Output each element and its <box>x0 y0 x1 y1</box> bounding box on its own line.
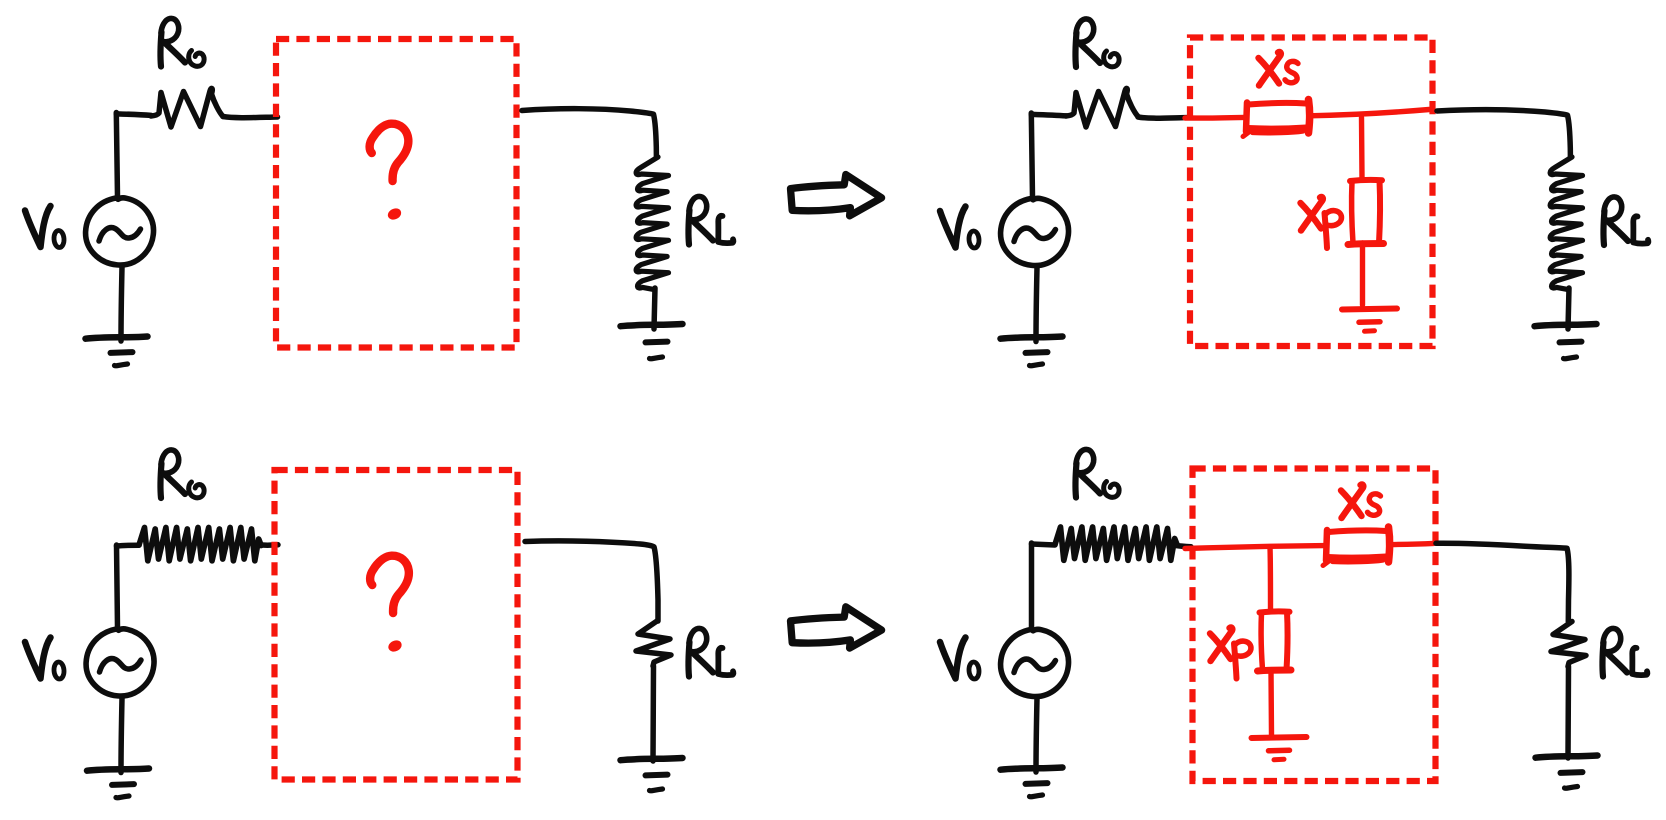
red wire Xs to box edge (row2 right) <box>1390 543 1434 544</box>
label V0 (row1 left) <box>25 206 65 248</box>
ground under RL (row1 right) <box>1535 324 1597 359</box>
reactance Xs box (row1 right) <box>1243 100 1310 137</box>
wire box to RL (row2 left) <box>525 541 658 621</box>
ground under RL (row2 right) <box>1536 756 1598 789</box>
red wire into Xs (row1 right) <box>1185 115 1245 121</box>
matching network box (row2 right) <box>1193 469 1436 782</box>
resistor RL coil (row1 left) <box>636 157 668 289</box>
matching network box ? (row2 left) <box>275 470 518 780</box>
wire V0-top to R0 (row1 right) <box>1031 113 1066 198</box>
wire R0 to box (row1 left) <box>223 117 278 118</box>
wire V0 to ground (row1 left) <box>121 267 122 341</box>
label RL (row2 right) <box>1602 628 1647 676</box>
wire box to RL (row1 left) <box>522 109 656 157</box>
ground under V0 (row1 right) <box>1001 337 1063 366</box>
ground under V0 (row2 right) <box>1001 768 1063 797</box>
AC source V0 (row2 right) <box>1001 629 1069 696</box>
red wire to junction and Xs (row2 right) <box>1185 546 1325 549</box>
AC source V0 (row1 right) <box>1001 198 1069 265</box>
wire RL to ground (row2 left) <box>650 666 656 761</box>
reactance Xp box (row2 right) <box>1258 611 1292 671</box>
resistor R0 (row1 left) <box>151 88 223 127</box>
label R0 (row1 right) <box>1075 19 1119 67</box>
wire box to RL (row1 right) <box>1437 110 1570 157</box>
label RL (row2 left) <box>688 628 733 676</box>
label R0 (row2 right) <box>1075 449 1119 497</box>
wire V0-top to R0 (row2 left) <box>117 545 140 628</box>
red wire Xp to ground (row2 right) <box>1268 671 1274 735</box>
wire RL to ground (row1 right) <box>1568 288 1569 329</box>
wire V0 to ground (row2 left) <box>121 699 122 773</box>
implication arrow (row 2) <box>791 607 882 648</box>
red wire Xs to box edge (row1 right) <box>1309 110 1429 116</box>
wire RL to ground (row2 right) <box>1565 667 1571 759</box>
ground under V0 (row1 left) <box>86 337 148 366</box>
resistor R0 coil (row2 left) <box>139 528 261 561</box>
resistor RL (row2 left) <box>636 621 671 666</box>
resistor RL coil (row1 right) <box>1550 157 1582 289</box>
wire V0 to ground (row1 right) <box>1036 268 1037 342</box>
red wire junction to Xp (row2 right) <box>1267 548 1273 610</box>
wire V0-top to R0 (row1 left) <box>116 113 151 198</box>
label Xs (row1 right) <box>1259 52 1299 86</box>
AC source V0 (row1 left) <box>86 198 154 265</box>
label Xp (row2 right) <box>1210 627 1251 678</box>
label RL (row1 right) <box>1603 197 1648 245</box>
label Xp (row1 right) <box>1301 197 1342 248</box>
resistor R0 coil (row2 right) <box>1055 527 1177 560</box>
label V0 (row2 left) <box>25 638 65 680</box>
resistor RL (row2 right) <box>1551 622 1586 667</box>
wire R0 to box (row1 right) <box>1138 117 1191 118</box>
reactance Xp box (row1 right) <box>1348 180 1384 245</box>
reactance Xs box (row2 right) <box>1323 527 1390 566</box>
ground under V0 (row2 left) <box>87 769 149 798</box>
question mark (row2 left) <box>370 556 409 654</box>
wire V0 to ground (row2 right) <box>1036 698 1037 772</box>
red ground under Xp (row1 right) <box>1342 309 1397 332</box>
wire R0 to box (row2 right) <box>1176 546 1191 547</box>
matching network box (row1 right) <box>1190 38 1433 347</box>
wire R0 to box (row2 left) <box>262 542 278 548</box>
label RL (row1 left) <box>688 196 733 244</box>
wire RL to ground (row1 left) <box>654 288 655 329</box>
wire box to RL (row2 right) <box>1436 543 1569 621</box>
red wire Xp to ground (row1 right) <box>1360 243 1365 305</box>
red wire junction to Xp (row1 right) <box>1359 118 1365 178</box>
ground under RL (row2 left) <box>621 758 683 791</box>
AC source V0 (row2 left) <box>86 629 154 696</box>
resistor R0 (row1 right) <box>1066 88 1138 127</box>
matching network box ? (row1 left) <box>276 39 517 348</box>
red ground under Xp (row2 right) <box>1252 737 1307 760</box>
label R0 (row2 left) <box>160 450 204 498</box>
question mark (row1 left) <box>370 124 409 222</box>
wire V0-top to R0 (row2 right) <box>1032 543 1056 629</box>
implication arrow (row 1) <box>791 175 882 216</box>
label Xs (row2 right) <box>1341 484 1381 518</box>
label V0 (row2 right) <box>940 638 980 680</box>
label V0 (row1 right) <box>940 207 980 249</box>
label R0 (row1 left) <box>160 18 204 66</box>
ground under RL (row1 left) <box>621 324 683 359</box>
